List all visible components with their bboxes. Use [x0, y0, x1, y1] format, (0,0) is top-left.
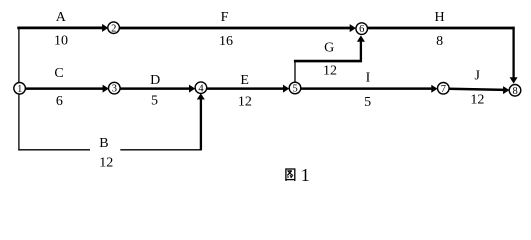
value 8 for H: [436, 34, 443, 49]
svg-text:2: 2: [111, 23, 116, 34]
activity G arrow: horizontal then up into node 6: [294, 35, 365, 62]
label F: [221, 10, 229, 25]
node 3: [109, 82, 121, 94]
svg-text:5: 5: [151, 93, 158, 108]
activity B arrow: vertical rising into node 4: [197, 93, 205, 150]
svg-text:E: E: [240, 73, 249, 88]
svg-text:1: 1: [17, 84, 22, 95]
svg-text:1: 1: [301, 165, 310, 185]
activity E arrow: from node 4 to node 5: [206, 85, 289, 93]
label J: [474, 69, 480, 84]
svg-text:J: J: [474, 69, 480, 84]
svg-text:3: 3: [112, 84, 117, 95]
label C: [54, 66, 63, 81]
value 10 for A: [54, 34, 68, 49]
node 2: [108, 22, 120, 34]
value 5 for I: [364, 95, 371, 110]
value 16 for F: [219, 34, 233, 49]
svg-text:5: 5: [292, 84, 297, 95]
label E: [240, 73, 249, 88]
activity I arrow: from node 5 to node 7: [300, 85, 437, 93]
value 12 for E: [238, 95, 252, 110]
svg-text:A: A: [56, 10, 67, 25]
activity C arrow: from node 1 to node 3: [25, 85, 109, 93]
svg-text:H: H: [435, 10, 445, 25]
activity A arrow: from node 1 top corner to node 2: [17, 24, 108, 32]
activity D arrow: from node 3 to node 4: [119, 85, 195, 93]
svg-text:16: 16: [219, 34, 233, 49]
label H: [435, 10, 445, 25]
node 6: [356, 23, 368, 35]
wire: left vertical from A-line down to node 1 and down to B-line: [18, 28, 20, 150]
svg-text:B: B: [99, 136, 108, 151]
wire: B bottom horizontal right segment: [120, 149, 201, 151]
svg-text:D: D: [150, 73, 160, 88]
svg-text:I: I: [366, 71, 371, 86]
svg-text:12: 12: [470, 93, 484, 108]
svg-text:F: F: [221, 10, 229, 25]
label D: [150, 73, 160, 88]
svg-text:6: 6: [359, 24, 364, 35]
node 8: [509, 85, 521, 97]
value 6 for C: [56, 94, 63, 109]
wire: G thin riser from node 5: [294, 61, 296, 84]
value 12 for G: [323, 63, 337, 78]
node 5: [289, 82, 301, 94]
wire: B bottom horizontal left segment: [18, 149, 90, 151]
label B: [99, 136, 108, 151]
svg-text:8: 8: [512, 86, 517, 97]
svg-text:C: C: [54, 66, 63, 81]
label G: [324, 41, 334, 56]
value 5 for D: [151, 93, 158, 108]
node 7: [438, 83, 450, 95]
svg-text:5: 5: [364, 95, 371, 110]
svg-text:12: 12: [323, 63, 337, 78]
svg-text:6: 6: [56, 94, 63, 109]
svg-text:12: 12: [238, 95, 252, 110]
node 1: [14, 83, 26, 95]
caption: figure number 1: [301, 165, 310, 185]
label A: [56, 10, 67, 25]
activity H arrow: from node 6 right, corner down into node 8: [367, 27, 518, 84]
svg-text:G: G: [324, 41, 334, 56]
value 12 for J: [470, 93, 484, 108]
node 4: [195, 82, 207, 94]
svg-text:12: 12: [99, 156, 113, 171]
svg-text:7: 7: [441, 84, 446, 95]
activity J arrow: from node 7 to node 8: [449, 86, 510, 94]
svg-text:8: 8: [436, 34, 443, 49]
svg-text:4: 4: [198, 83, 204, 94]
value 12 for B: [99, 156, 113, 171]
label I: [366, 71, 371, 86]
svg-text:10: 10: [54, 34, 68, 49]
caption: character tu (figure) drawn as glyph: [285, 169, 295, 181]
activity F arrow: from node 2 to node 6: [119, 24, 356, 32]
